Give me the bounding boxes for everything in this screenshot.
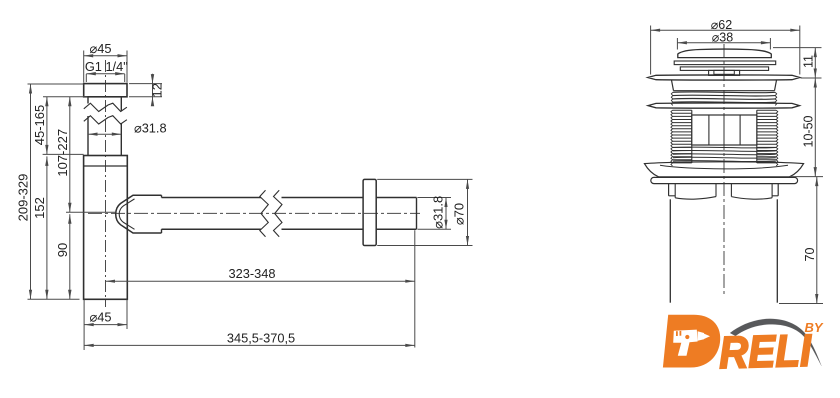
outlet pipe bottom edge segment 3 — [376, 228, 416, 230]
drain cap dome — [678, 49, 772, 57]
svg-text:90: 90 — [55, 243, 70, 257]
dimension 107-227 line — [68, 97, 71, 212]
dimension 45-165 label — [32, 105, 47, 145]
extension line bottom datum — [28, 298, 80, 300]
outlet wall flange — [363, 179, 376, 245]
dimension 209-329 label — [16, 174, 31, 222]
drain cap disc — [680, 67, 768, 71]
extension line ring right — [790, 176, 823, 178]
svg-text:G1 1/4": G1 1/4" — [85, 59, 128, 74]
break symbol zigzag left on outlet pipe — [260, 190, 269, 237]
dimension d38 extension lines — [677, 38, 770, 50]
inlet pipe wall right lower — [120, 123, 122, 156]
dimension d62 label — [711, 18, 732, 32]
svg-text:152: 152 — [32, 197, 47, 219]
svg-text:⌀31.8: ⌀31.8 — [134, 121, 167, 136]
svg-text:BY: BY — [805, 320, 824, 335]
svg-text:107-227: 107-227 — [55, 129, 70, 177]
extension line pipe centre to left — [66, 211, 116, 213]
dimension 107-227 label — [55, 129, 70, 177]
dimension d31.8 outlet line — [444, 198, 447, 230]
dimension 70 line — [815, 177, 818, 304]
outlet pipe bottom edge segment 2 — [282, 228, 364, 230]
dimension d45 top line — [84, 54, 127, 57]
dimension d31.8 outlet label — [430, 196, 445, 229]
dimension 152 line — [45, 156, 48, 299]
logo text BY — [805, 320, 824, 335]
drain thread side walls — [692, 110, 757, 163]
extension line body left below — [83, 299, 85, 350]
svg-text:10-50: 10-50 — [802, 115, 816, 147]
drain neck — [709, 70, 740, 75]
dimension d45 bottom line — [84, 323, 127, 326]
dimension 152 label — [32, 197, 47, 219]
dimension 45-165 line — [45, 97, 48, 155]
break symbol zigzag upper on inlet pipe — [84, 103, 127, 111]
dimension 10-50 label — [802, 115, 816, 147]
dimension 323-348 label — [229, 266, 276, 281]
svg-text:⌀31.8: ⌀31.8 — [430, 196, 445, 229]
dimension d62 line — [651, 29, 800, 32]
inlet pipe wall left upper — [87, 97, 89, 104]
drain cap washer — [674, 61, 776, 65]
drain locknut — [669, 184, 779, 200]
dimension d45 bottom label — [90, 310, 112, 325]
outlet pipe top edge segment 3 — [376, 197, 416, 199]
drain tailpipe wall left — [669, 199, 671, 302]
extension line cap top to left — [28, 83, 84, 85]
dimension 11 label — [802, 55, 816, 68]
dimension 11 line — [814, 48, 817, 78]
outlet pipe top edge segment 2 — [282, 197, 364, 199]
svg-text:⌀38: ⌀38 — [712, 30, 733, 44]
svg-text:345,5-370,5: 345,5-370,5 — [227, 330, 295, 345]
drain tailpipe wall right — [776, 199, 778, 302]
dimension 209-329 line — [29, 84, 32, 299]
dimension 10-50 line — [814, 78, 817, 177]
dimension G1 1/4 extension lines — [86, 74, 124, 82]
centerline horizontal of outlet pipe — [88, 212, 420, 214]
bottle body collar line — [84, 165, 128, 167]
extension line pipe end vertical — [414, 230, 416, 347]
drain thread lines below window — [673, 147, 776, 162]
dimension 90 label — [55, 243, 70, 257]
svg-text:12: 12 — [150, 83, 165, 97]
dimension d38 line — [677, 41, 770, 44]
extension line flange right — [801, 77, 822, 79]
logo drill icon — [673, 330, 710, 356]
extension line body right below — [126, 299, 128, 329]
dimension d70 label — [452, 203, 467, 225]
extension line tailpipe bottom right — [779, 303, 823, 305]
dimension 12 extension lines — [129, 84, 162, 97]
extension line cap bottom to left — [43, 96, 88, 98]
dimension d45 top extension lines — [84, 51, 127, 83]
break symbol zigzag right on outlet pipe — [274, 190, 283, 237]
drain mid flange — [648, 103, 800, 108]
dimension 12 line — [151, 74, 154, 107]
extension lines pipe end top bottom — [418, 198, 452, 230]
dimension d31.8 inlet label — [134, 121, 167, 136]
dimension d38 label — [712, 30, 733, 44]
dimension d70 line — [466, 179, 469, 245]
drain thread band lower sides — [671, 110, 778, 166]
bottle body — [84, 156, 128, 300]
svg-text:RELI: RELI — [718, 325, 813, 378]
svg-text:323-348: 323-348 — [229, 266, 276, 281]
logo swoosh — [730, 319, 822, 366]
inlet pipe wall left lower — [87, 116, 89, 156]
inlet cap flange — [84, 84, 127, 97]
dimension 70 label — [803, 248, 817, 262]
svg-text:⌀45: ⌀45 — [90, 310, 112, 325]
drain shoulder — [672, 80, 777, 91]
dimension 323-348 line — [106, 280, 415, 283]
centerline vertical of inlet pipe and body — [105, 60, 107, 307]
dimension d62 extension lines — [651, 26, 800, 75]
logo letter D — [663, 315, 720, 368]
drain dish — [644, 162, 803, 177]
outlet pipe end edge — [416, 198, 418, 230]
svg-text:⌀45: ⌀45 — [90, 41, 112, 56]
svg-text:45-165: 45-165 — [32, 105, 47, 145]
centerline vertical of drain — [723, 44, 725, 295]
dimension G1 1/4 line — [86, 72, 124, 75]
outlet pipe top edge segment 1 — [162, 197, 262, 199]
dimension d45 top label — [90, 41, 112, 56]
dimension 345.5-370.5 line — [84, 344, 415, 347]
outlet elbow — [116, 195, 162, 233]
dimension 90 line — [68, 214, 71, 299]
outlet pipe bottom edge segment 1 — [162, 228, 262, 230]
svg-text:70: 70 — [803, 248, 817, 262]
svg-text:⌀70: ⌀70 — [452, 203, 467, 225]
drain thread band upper — [671, 92, 776, 106]
drain top flange — [648, 75, 800, 80]
extension lines flange top bottom — [377, 179, 472, 245]
svg-text:209-329: 209-329 — [16, 174, 31, 222]
drain seal ring — [651, 177, 798, 183]
dimension d31.8 inlet line — [88, 133, 121, 136]
break symbol zigzag lower on inlet pipe — [84, 116, 127, 124]
svg-text:11: 11 — [802, 55, 816, 68]
drain plug window — [692, 115, 757, 145]
dimension 12 label — [150, 83, 165, 97]
logo text RELI — [718, 325, 813, 378]
extension line cap top right — [773, 47, 822, 49]
extension line body top to left — [43, 153, 84, 155]
dimension G1 1/4 label — [85, 59, 128, 74]
dimension 345.5-370.5 label — [227, 330, 295, 345]
inlet pipe wall right upper — [120, 97, 122, 111]
